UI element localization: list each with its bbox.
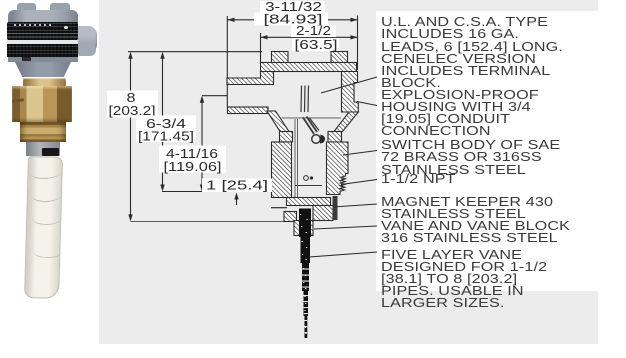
photo: keeper collar <box>26 142 60 156</box>
photo: EX mark <box>22 57 31 61</box>
neck left wall <box>280 132 293 143</box>
interior shelf line <box>295 185 322 187</box>
photo: vane blade <box>24 156 63 299</box>
neck right wall <box>328 132 342 143</box>
hub reference line y95.7 <box>202 95 227 97</box>
photo: vane layer arc 1 <box>30 166 61 180</box>
leader to explosion-proof text <box>357 102 377 106</box>
callout text block 3: switch body <box>381 139 560 175</box>
right wall <box>342 72 359 113</box>
arrowheads dim 6-3/4 <box>160 52 164 59</box>
arrowheads 2-1/2 <box>261 35 268 39</box>
label 1 [25.4] <box>202 179 272 193</box>
wire grommet <box>312 135 321 144</box>
left wall + hub top band <box>227 72 274 85</box>
svg-text:[171.45]: [171.45] <box>138 128 194 143</box>
label 4-11/16 [119.06] <box>159 146 226 173</box>
label 6-3/4 [171.45] <box>136 116 196 143</box>
cover plate <box>261 63 357 72</box>
callout text block 2: explosion-proof housing <box>381 89 539 137</box>
callout text block 6: vane and vane block <box>381 220 570 244</box>
photo: vane layer arc 4 <box>33 245 62 259</box>
interior: body top line <box>281 117 341 119</box>
hub bore left edge <box>226 85 228 108</box>
photo: black label band 1 <box>7 22 78 40</box>
photo: label white dot <box>64 26 68 29</box>
svg-text:[119.06]: [119.06] <box>164 159 222 174</box>
photo: white stripe <box>7 40 78 44</box>
interior: tube verticals <box>295 119 298 197</box>
hub bottom band <box>228 107 269 114</box>
body right wall (threaded) <box>327 142 349 195</box>
keeper flange lip <box>271 207 287 209</box>
leader to magnet keeper text <box>333 204 377 207</box>
arrowhead dim 1 inch <box>234 193 238 200</box>
photo: housing boss right <box>50 3 70 14</box>
extension line x260.5 <box>260 33 262 62</box>
arrowheads dim 4-11/16 <box>200 96 204 103</box>
photo: cap bottom rim <box>8 57 78 62</box>
photo: neck <box>15 62 71 77</box>
dim 4-11/16 vertical <box>201 98 203 189</box>
top dim 3-11/32 line <box>228 19 358 21</box>
extension line x357.5 <box>357 16 359 71</box>
photo: gray cap body <box>8 10 78 62</box>
top dim 2-1/2 line <box>261 36 358 38</box>
photo: keeper black marks <box>42 148 59 156</box>
boss left <box>272 52 289 64</box>
callout text block 7: five layer vane <box>381 249 547 309</box>
leader to five layer vane text <box>309 252 377 257</box>
photo: brass top ring <box>23 78 66 87</box>
dim 8 vertical <box>130 54 132 219</box>
photo: conduit step <box>78 44 96 56</box>
top reference line y51.7 <box>128 51 262 53</box>
photo: label bright row <box>14 24 54 26</box>
body left wall <box>272 142 292 198</box>
right vane block <box>313 206 333 221</box>
leader to UL text <box>321 77 377 93</box>
photo: housing boss left <box>17 3 36 14</box>
left lower flange <box>267 111 289 132</box>
body bottom reference line y191.5 <box>162 191 289 193</box>
vane dash gaps <box>302 269 310 334</box>
callout text block 1: UL/CSA <box>381 16 563 89</box>
svg-text:1 [25.4]: 1 [25.4] <box>206 177 268 192</box>
callout text block 4: NPT <box>381 173 456 185</box>
svg-text:[63.5]: [63.5] <box>295 37 338 52</box>
dim 6-3/4 vertical <box>162 54 164 189</box>
callout text block 5: magnet keeper <box>381 196 553 220</box>
leader to NPT text <box>341 180 377 185</box>
bottom plate <box>287 198 331 206</box>
right lower flange <box>334 112 358 132</box>
grommet side blobs <box>320 135 325 144</box>
wires <box>301 86 319 135</box>
keeper plate edge (dark) <box>333 196 338 220</box>
vane top reference line y221.4 <box>131 220 289 222</box>
leader to switch body text <box>343 151 377 156</box>
photo: vane layer arc 3 <box>32 211 62 226</box>
vane white speckles <box>300 214 308 334</box>
label 8 [203.2] <box>107 91 158 118</box>
leader to vane block text <box>314 226 377 229</box>
vane block step <box>294 221 313 236</box>
arrowheads dim 8 <box>128 52 132 59</box>
gray scan background <box>99 0 598 344</box>
white text panel <box>376 11 598 291</box>
label 2-1/2 <box>291 26 336 38</box>
photo: black label band 2 <box>7 44 78 57</box>
keeper left block <box>284 212 297 222</box>
boss right <box>331 52 348 64</box>
label 3-11/32 <box>260 1 325 13</box>
photo: brass hex nut <box>12 86 72 122</box>
arrowheads 3-11/32 <box>228 18 235 22</box>
extension line x227.5 <box>226 16 228 78</box>
magnet detail circles <box>304 176 309 181</box>
photo: hex notch mark <box>12 98 24 103</box>
photo: conduit connection right <box>62 26 97 53</box>
photo: brass lower cylinder <box>20 122 66 142</box>
photo: vane layer arc 2 <box>31 188 62 203</box>
dim 1 inch arrow stem <box>236 195 238 205</box>
